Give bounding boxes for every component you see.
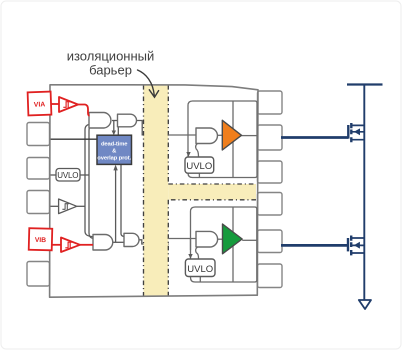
pin VIA box [28,92,52,116]
UVLO box A [185,157,214,173]
wire barrier to gate A [168,134,196,136]
channel A box [188,101,257,178]
wire VIA to buffer [51,103,59,105]
pin R1 [258,91,283,114]
pin R6 [258,264,283,288]
body diode arrow Q2 [354,242,360,249]
wire branch up into dead-time box [115,169,117,243]
wire barrier to gate B [168,238,196,240]
svg-text:VIA: VIA [34,101,46,108]
gate A1 (AND) [89,113,111,129]
IC body outline [50,85,258,297]
wire gate A to driver A [217,134,222,136]
wire driver B output [242,239,257,241]
wire VIB to buffer [52,244,61,246]
channel A divider [232,101,234,178]
right pins [258,91,283,288]
driver A triangle (orange) [222,120,241,150]
pin R3 [258,161,283,183]
arrowhead into UVLO A [186,152,190,157]
wire UVLO B feed [190,239,192,251]
gate wire B (thick) [281,244,348,247]
label: isolation barrier title [67,49,155,78]
wire driver A output [242,135,258,137]
gate B1 (AND) [93,235,113,251]
pin 3 left [27,158,50,180]
buffer EN (schmitt) [59,199,77,214]
left pins [27,123,50,287]
wire buffer to gate A1 [78,105,90,116]
wire pin4 to buffer [50,205,59,207]
gate B2 (shaper) [124,233,139,246]
gate B (AND) [196,231,218,247]
transistor Q2 (bottom MOSFET) [348,236,364,256]
ground [359,300,371,309]
svg-text:барьер: барьер [89,63,132,78]
UVLO box B [185,259,215,277]
svg-text:overlap prot.: overlap prot. [97,156,131,162]
wire buffer output tap [77,205,85,207]
wire UVLO B bottom stub [199,277,201,283]
barrier vertical band [144,85,169,296]
wire gate B1 out to gate B2 [113,241,124,243]
IC body fill [50,85,258,297]
wire gate B hook to UVLO [196,247,199,259]
buffer VIA (schmitt) [59,97,78,112]
supply rail bar [347,83,383,85]
transistor Q1 (top MOSFET) [348,123,364,142]
gate A (AND) [196,128,217,144]
driver B triangle (green) [223,224,243,254]
arrow from label to barrier [138,70,159,97]
wire buffer to gate B1 [80,244,93,246]
wire pin2 to dead-time box [50,138,97,140]
wire gate A1 out to gate A2 [112,120,118,122]
svg-text:UVLO: UVLO [186,161,212,172]
wire branch down into dead-time box [113,121,115,132]
wire vertical bus 2 (UVLO output rail) [89,126,93,238]
svg-text:UVLO: UVLO [57,171,78,180]
wire gate A2 output hook under barrier [137,121,170,135]
wire UVLO output tap [80,174,89,176]
gate A2 (shaper) [118,114,137,127]
svg-text:&: & [112,148,116,154]
wire B2 upper feed from box [121,164,124,236]
pin 4 left [27,191,50,214]
pin 6 left [27,262,50,287]
body diode arrow Q1 [354,128,360,135]
svg-text:UVLO: UVLO [187,264,213,275]
svg-text:изоляционный: изоляционный [67,49,155,64]
wire gate B to driver B [218,238,223,240]
wire gate A hook to UVLO [196,144,199,157]
gate wire A (thick) [281,136,348,139]
wire gate B2 output hook under barrier [139,240,169,244]
wire vertical bus 1 (buffer output rail) [85,125,93,237]
wire pin3 to UVLO [50,174,56,176]
pin R5 [258,230,283,253]
wire UVLO A bottom stub [198,173,200,177]
arrowhead into UVLO B [188,254,192,259]
pin VIB box [29,228,53,250]
rail vertical wire [363,85,365,300]
wire A2 lower feed from box [117,127,119,136]
svg-text:VIB: VIB [35,237,47,244]
pin R2 [258,125,283,150]
pin R4 [258,193,283,216]
barrier horizontal band [168,184,256,200]
svg-text:dead-time: dead-time [101,142,128,148]
buffer VIB (schmitt) [61,238,80,253]
barrier dash-dot borders [144,85,257,296]
arrowhead into dead-time box bottom [113,165,117,171]
channel B box [191,207,257,282]
pin 2 left [27,123,50,146]
arrowhead into dead-time box top [112,131,116,136]
dead-time and overlap protection box U2 [97,135,132,164]
channel B divider [232,207,234,282]
UVLO box left [56,169,80,182]
